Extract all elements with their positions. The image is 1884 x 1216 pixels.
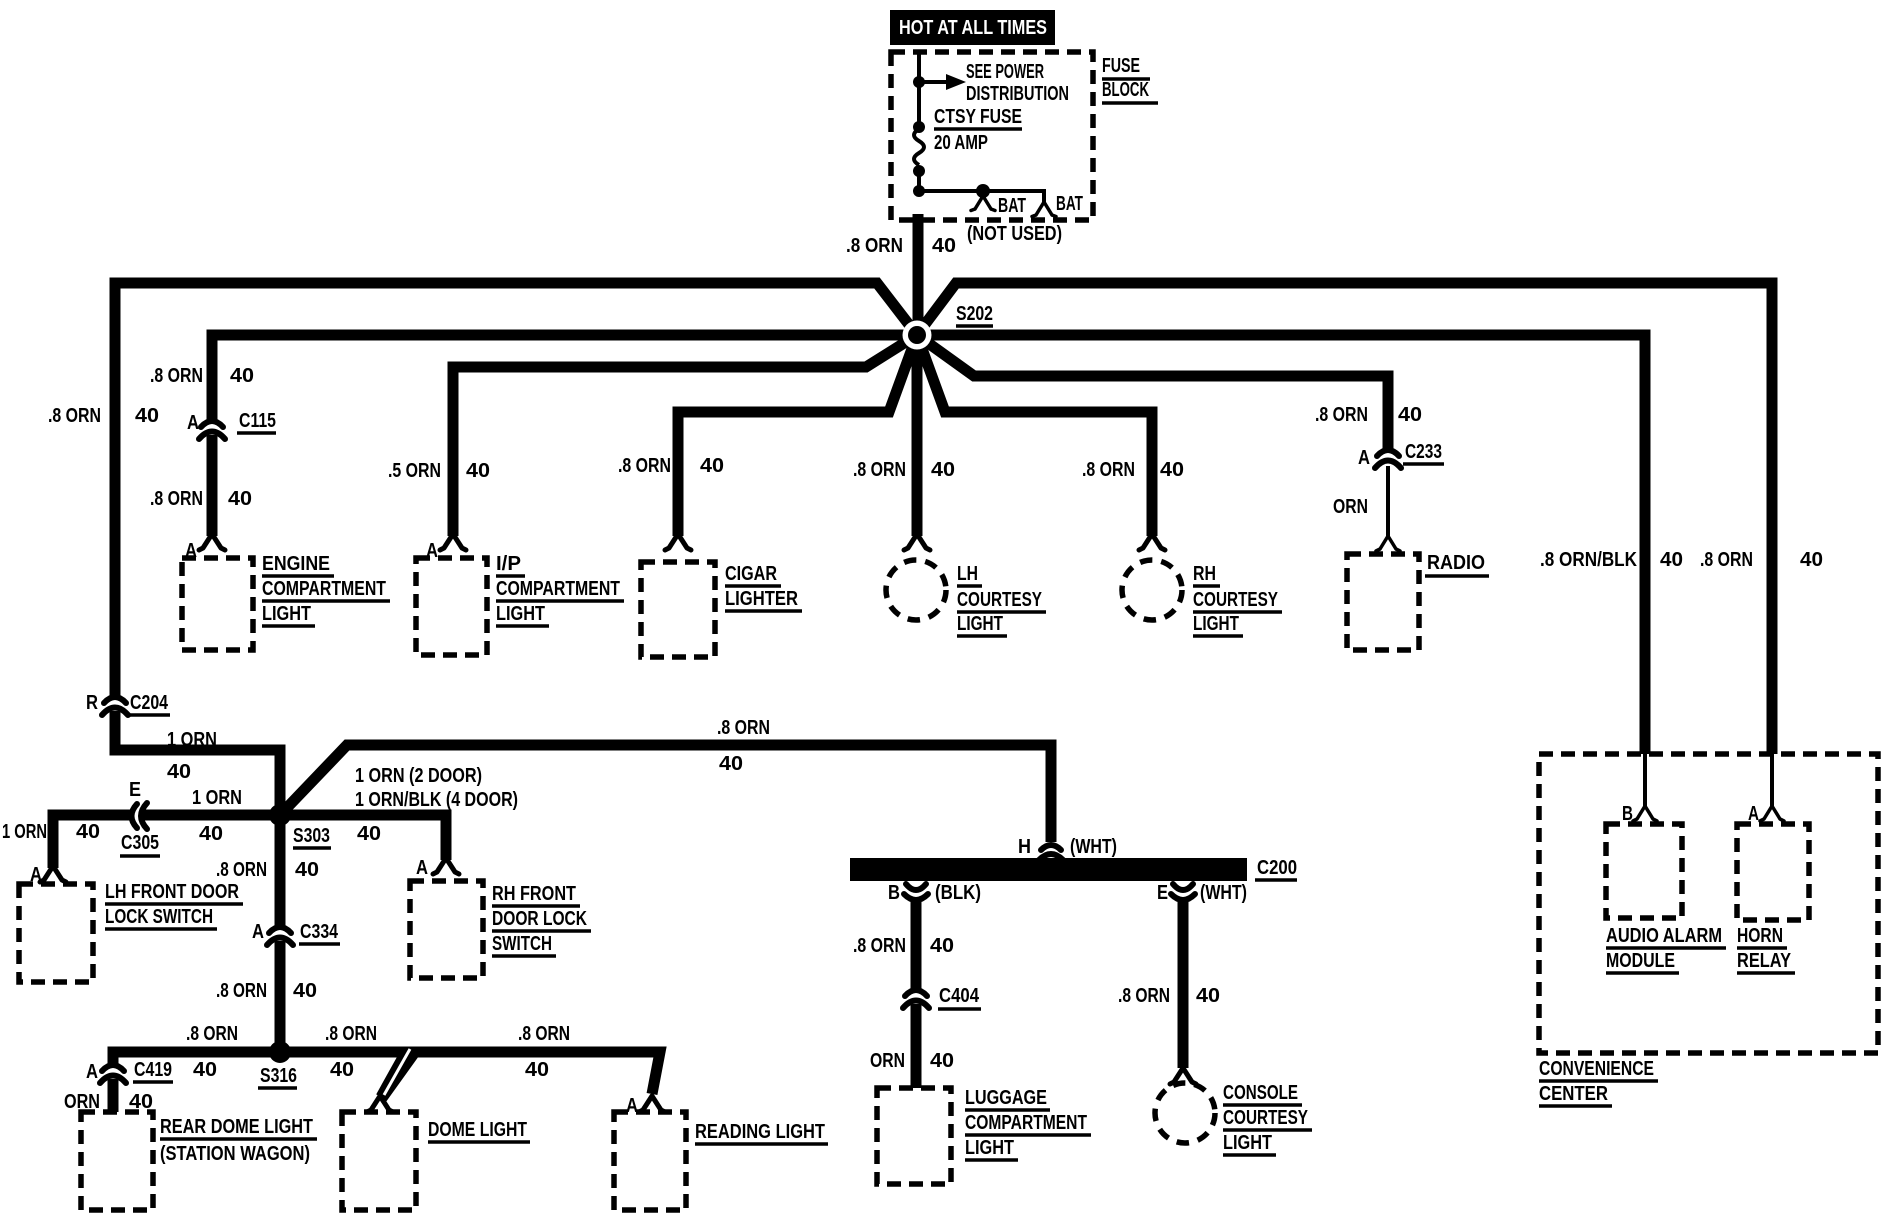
wire S202 to cigar lighter — [678, 335, 917, 536]
svg-text:.8 ORN: .8 ORN — [853, 935, 906, 957]
splice S303 — [269, 804, 291, 826]
wire bus left: S202 to left vertical, down to C204 and S303 — [115, 283, 917, 815]
wire S202 to I/P compartment light (.5 ORN) — [453, 335, 917, 536]
svg-text:RELAY: RELAY — [1737, 950, 1792, 972]
I/P compartment light box — [416, 558, 487, 655]
svg-text:CTSY FUSE: CTSY FUSE — [934, 106, 1022, 128]
svg-text:LIGHTER: LIGHTER — [725, 588, 798, 610]
svg-text:S316: S316 — [260, 1065, 297, 1087]
fuse block dashed box — [891, 52, 1093, 220]
svg-text:LIGHT: LIGHT — [262, 603, 311, 625]
svg-text:C305: C305 — [121, 832, 159, 854]
svg-text:FUSE: FUSE — [1102, 55, 1140, 77]
reading light box — [614, 1112, 686, 1210]
svg-text:.8 ORN/BLK: .8 ORN/BLK — [1540, 549, 1637, 571]
svg-text:B: B — [1622, 803, 1633, 825]
wires inside convenience center to pins B and A — [1645, 754, 1772, 806]
console courtesy light circle — [1155, 1083, 1215, 1143]
svg-text:A: A — [626, 1095, 638, 1117]
terminal fork A at LH front door lock switch — [40, 866, 66, 882]
svg-text:40: 40 — [930, 935, 954, 957]
BAT terminal fork 1 — [971, 196, 995, 211]
terminal fork A at I/P compartment light — [440, 534, 466, 550]
svg-text:MODULE: MODULE — [1606, 950, 1675, 972]
connector C233 symbol — [1374, 449, 1402, 468]
wire C200 pin E to console courtesy light — [1178, 902, 1189, 1068]
svg-text:C200: C200 — [1257, 857, 1297, 879]
svg-text:(WHT): (WHT) — [1070, 836, 1117, 858]
svg-text:.8 ORN: .8 ORN — [618, 455, 671, 477]
svg-text:A: A — [416, 857, 428, 879]
svg-text:40: 40 — [357, 823, 381, 845]
svg-text:40: 40 — [700, 455, 724, 477]
audio alarm module box — [1606, 824, 1682, 918]
terminal fork A at reading light — [639, 1096, 665, 1112]
RH courtesy light circle — [1122, 560, 1182, 620]
svg-text:HORN: HORN — [1737, 925, 1783, 947]
svg-text:40: 40 — [930, 1050, 954, 1072]
engine compartment light box — [182, 558, 253, 650]
svg-text:20 AMP: 20 AMP — [934, 132, 988, 154]
svg-text:I/P: I/P — [496, 553, 521, 575]
svg-text:ENGINE: ENGINE — [262, 553, 330, 575]
svg-text:ORN: ORN — [64, 1091, 100, 1113]
terminal fork at cigar lighter — [665, 534, 691, 550]
svg-text:AUDIO ALARM: AUDIO ALARM — [1606, 925, 1722, 947]
svg-text:40: 40 — [76, 821, 100, 843]
svg-text:COMPARTMENT: COMPARTMENT — [262, 578, 386, 600]
connector C204 symbol — [101, 696, 129, 715]
svg-text:B: B — [888, 882, 900, 904]
connector C200 bar — [850, 858, 1247, 881]
splice S202 — [903, 321, 932, 350]
svg-text:.8 ORN: .8 ORN — [1700, 549, 1753, 571]
svg-text:.8 ORN: .8 ORN — [48, 405, 101, 427]
svg-text:BAT: BAT — [1056, 193, 1083, 215]
svg-text:.8 ORN: .8 ORN — [216, 859, 267, 881]
svg-text:C334: C334 — [300, 921, 339, 943]
wire S202 to radio via C233 — [917, 335, 1388, 450]
svg-text:READING LIGHT: READING LIGHT — [695, 1121, 825, 1143]
svg-text:S303: S303 — [293, 825, 330, 847]
svg-text:40: 40 — [193, 1059, 217, 1081]
terminal fork at LH courtesy light — [904, 534, 930, 550]
svg-text:40: 40 — [135, 405, 159, 427]
connector C404 symbol — [902, 989, 930, 1008]
svg-text:DOME LIGHT: DOME LIGHT — [428, 1119, 527, 1141]
svg-text:LIGHT: LIGHT — [496, 603, 545, 625]
svg-text:H: H — [1018, 836, 1031, 858]
svg-text:CONVENIENCE: CONVENIENCE — [1539, 1058, 1654, 1080]
svg-text:1 ORN/BLK (4 DOOR): 1 ORN/BLK (4 DOOR) — [355, 789, 518, 811]
svg-text:.8 ORN: .8 ORN — [216, 980, 267, 1002]
svg-text:LIGHT: LIGHT — [1193, 613, 1239, 635]
wire S303 to LH front door lock switch via C305 — [53, 815, 280, 868]
svg-text:40: 40 — [228, 488, 252, 510]
svg-text:HOT AT ALL TIMES: HOT AT ALL TIMES — [899, 17, 1047, 39]
svg-text:LOCK SWITCH: LOCK SWITCH — [105, 906, 213, 928]
wire S202 to engine compartment light via C115 — [212, 335, 917, 536]
wire fuse block internal vertical — [917, 52, 921, 191]
svg-text:40: 40 — [1196, 985, 1220, 1007]
junction dots in fuse block — [913, 76, 925, 88]
wire S316 to dome light — [280, 1052, 406, 1097]
LH front door lock switch box — [19, 884, 93, 982]
wire S303 to RH front door lock switch — [280, 815, 446, 860]
svg-text:40: 40 — [1160, 459, 1184, 481]
svg-text:.8 ORN: .8 ORN — [1118, 985, 1170, 1007]
wire S202 to LH courtesy light — [912, 335, 923, 536]
HOT AT ALL TIMES header box — [890, 10, 1055, 45]
wire gap between dome light V arms — [384, 1049, 410, 1095]
svg-text:(BLK): (BLK) — [935, 882, 981, 904]
svg-text:40: 40 — [330, 1059, 354, 1081]
svg-text:SEE POWER: SEE POWER — [966, 61, 1044, 83]
svg-text:E: E — [1157, 882, 1168, 904]
wire radio below C233 (ORN) — [1386, 466, 1390, 538]
svg-text:1 ORN: 1 ORN — [167, 729, 217, 751]
terminal fork at console courtesy light — [1170, 1068, 1196, 1084]
svg-text:A: A — [426, 540, 438, 562]
svg-text:RH: RH — [1193, 563, 1216, 585]
svg-text:40: 40 — [167, 761, 191, 783]
svg-text:DISTRIBUTION: DISTRIBUTION — [966, 83, 1069, 105]
svg-text:C233: C233 — [1405, 441, 1442, 463]
cigar lighter box — [641, 562, 715, 657]
svg-text:A: A — [252, 921, 264, 943]
svg-text:40: 40 — [1800, 549, 1823, 571]
C200 pin B symbol — [906, 884, 926, 890]
fuse CTSY FUSE 20 AMP element — [914, 129, 924, 165]
svg-text:S202: S202 — [956, 303, 993, 325]
connector C305 symbol — [130, 801, 147, 829]
wire S303 to S316 via C334 — [275, 815, 286, 1052]
svg-text:40: 40 — [1398, 404, 1422, 426]
svg-text:40: 40 — [199, 823, 223, 845]
svg-text:LH: LH — [957, 563, 978, 585]
RH front door lock switch box — [410, 881, 483, 978]
svg-text:SWITCH: SWITCH — [492, 933, 552, 955]
rear dome light box — [81, 1112, 153, 1210]
wire dome light junction to reading light — [382, 1052, 660, 1098]
C200 pin E symbol — [1173, 884, 1193, 890]
svg-text:40: 40 — [230, 365, 254, 387]
svg-text:LH FRONT DOOR: LH FRONT DOOR — [105, 881, 239, 903]
svg-text:LIGHT: LIGHT — [957, 613, 1003, 635]
svg-text:40: 40 — [932, 235, 956, 257]
svg-text:E: E — [129, 779, 141, 801]
svg-text:REAR DOME LIGHT: REAR DOME LIGHT — [160, 1116, 313, 1138]
svg-text:1 ORN: 1 ORN — [192, 787, 242, 809]
svg-text:40: 40 — [466, 460, 490, 482]
svg-text:ORN: ORN — [1333, 496, 1368, 518]
svg-text:(NOT USED): (NOT USED) — [967, 223, 1062, 245]
radio box — [1347, 554, 1419, 650]
svg-text:A: A — [187, 412, 199, 434]
wire S316 to rear dome light via C419 — [113, 1052, 280, 1112]
svg-text:CONSOLE: CONSOLE — [1223, 1082, 1298, 1104]
svg-text:A: A — [185, 540, 197, 562]
svg-text:A: A — [86, 1061, 98, 1083]
svg-text:BAT: BAT — [998, 195, 1026, 217]
svg-text:.8 ORN: .8 ORN — [150, 365, 203, 387]
svg-text:.8 ORN: .8 ORN — [1082, 459, 1135, 481]
svg-text:40: 40 — [293, 980, 317, 1002]
svg-text:C404: C404 — [939, 985, 980, 1007]
svg-text:(STATION WAGON): (STATION WAGON) — [160, 1143, 310, 1165]
svg-text:LIGHT: LIGHT — [965, 1137, 1014, 1159]
svg-text:(WHT): (WHT) — [1200, 882, 1247, 904]
wire S202 to RH courtesy light — [917, 335, 1152, 536]
terminal fork at radio — [1376, 536, 1400, 551]
svg-text:40: 40 — [295, 859, 319, 881]
svg-text:COMPARTMENT: COMPARTMENT — [496, 578, 620, 600]
svg-text:LUGGAGE: LUGGAGE — [965, 1087, 1047, 1109]
svg-text:.5 ORN: .5 ORN — [388, 460, 441, 482]
svg-text:COURTESY: COURTESY — [1223, 1107, 1309, 1129]
connector C419 symbol — [99, 1064, 127, 1083]
svg-text:A: A — [1748, 803, 1759, 825]
svg-text:RH FRONT: RH FRONT — [492, 883, 576, 905]
svg-text:.8 ORN: .8 ORN — [150, 488, 203, 510]
terminal fork at dome light — [367, 1096, 393, 1112]
convenience center box — [1539, 754, 1878, 1053]
svg-text:A: A — [30, 864, 42, 886]
svg-text:.8 ORN: .8 ORN — [1315, 404, 1368, 426]
BAT terminal fork 2 — [1032, 202, 1056, 217]
wire S202 to audio alarm module (.8 ORN/BLK) — [917, 335, 1645, 754]
horn relay box — [1737, 824, 1809, 920]
dome light box — [342, 1112, 416, 1210]
connector C334 symbol — [266, 926, 294, 945]
wire S202 to horn relay (.8 ORN) — [917, 283, 1772, 754]
svg-text:.8 ORN: .8 ORN — [325, 1023, 377, 1045]
terminal fork at RH courtesy light — [1139, 534, 1165, 550]
svg-text:ORN: ORN — [870, 1050, 905, 1072]
svg-text:LIGHT: LIGHT — [1223, 1132, 1272, 1154]
svg-text:BLOCK: BLOCK — [1102, 79, 1149, 101]
svg-text:.8 ORN: .8 ORN — [717, 717, 770, 739]
wire .8 ORN from fuse block to splice S202 — [913, 214, 924, 335]
svg-text:C115: C115 — [239, 410, 276, 432]
svg-text:40: 40 — [525, 1059, 549, 1081]
svg-text:COURTESY: COURTESY — [1193, 589, 1279, 611]
svg-text:COMPARTMENT: COMPARTMENT — [965, 1112, 1087, 1134]
wire fuse block to BAT terminals — [919, 191, 1044, 202]
splice S316 — [269, 1041, 291, 1063]
wire C200 pin B to luggage compartment light via C404 — [911, 902, 922, 1088]
terminal fork A at RH front door lock switch — [433, 858, 459, 874]
svg-text:COURTESY: COURTESY — [957, 589, 1043, 611]
LH courtesy light circle — [886, 560, 946, 620]
svg-text:.8 ORN: .8 ORN — [518, 1023, 570, 1045]
C200 pin H symbol — [1041, 845, 1061, 850]
svg-text:.8 ORN: .8 ORN — [853, 459, 906, 481]
svg-text:CENTER: CENTER — [1539, 1083, 1608, 1105]
connector C115 symbol — [198, 420, 226, 439]
terminal fork A at engine compartment light — [199, 534, 225, 550]
wire arrow to see power distribution — [919, 80, 946, 84]
svg-text:DOOR LOCK: DOOR LOCK — [492, 908, 587, 930]
luggage compartment light box — [877, 1088, 951, 1184]
svg-text:R: R — [86, 692, 98, 714]
svg-text:1 ORN (2 DOOR): 1 ORN (2 DOOR) — [355, 765, 482, 787]
svg-text:.8 ORN: .8 ORN — [846, 235, 903, 257]
svg-text:40: 40 — [719, 753, 743, 775]
terminal fork B at audio alarm module — [1633, 806, 1657, 821]
svg-text:.8 ORN: .8 ORN — [186, 1023, 238, 1045]
svg-text:40: 40 — [129, 1091, 153, 1113]
terminal fork A at horn relay — [1760, 806, 1784, 821]
svg-text:40: 40 — [931, 459, 955, 481]
svg-text:CIGAR: CIGAR — [725, 563, 777, 585]
svg-text:A: A — [1358, 447, 1370, 469]
svg-text:C204: C204 — [130, 692, 169, 714]
svg-text:40: 40 — [1660, 549, 1683, 571]
svg-text:RADIO: RADIO — [1427, 552, 1485, 574]
wire S303 to C200 pin H (.8 ORN) — [280, 745, 1051, 842]
svg-text:C419: C419 — [134, 1059, 172, 1081]
svg-text:1 ORN: 1 ORN — [2, 821, 47, 843]
